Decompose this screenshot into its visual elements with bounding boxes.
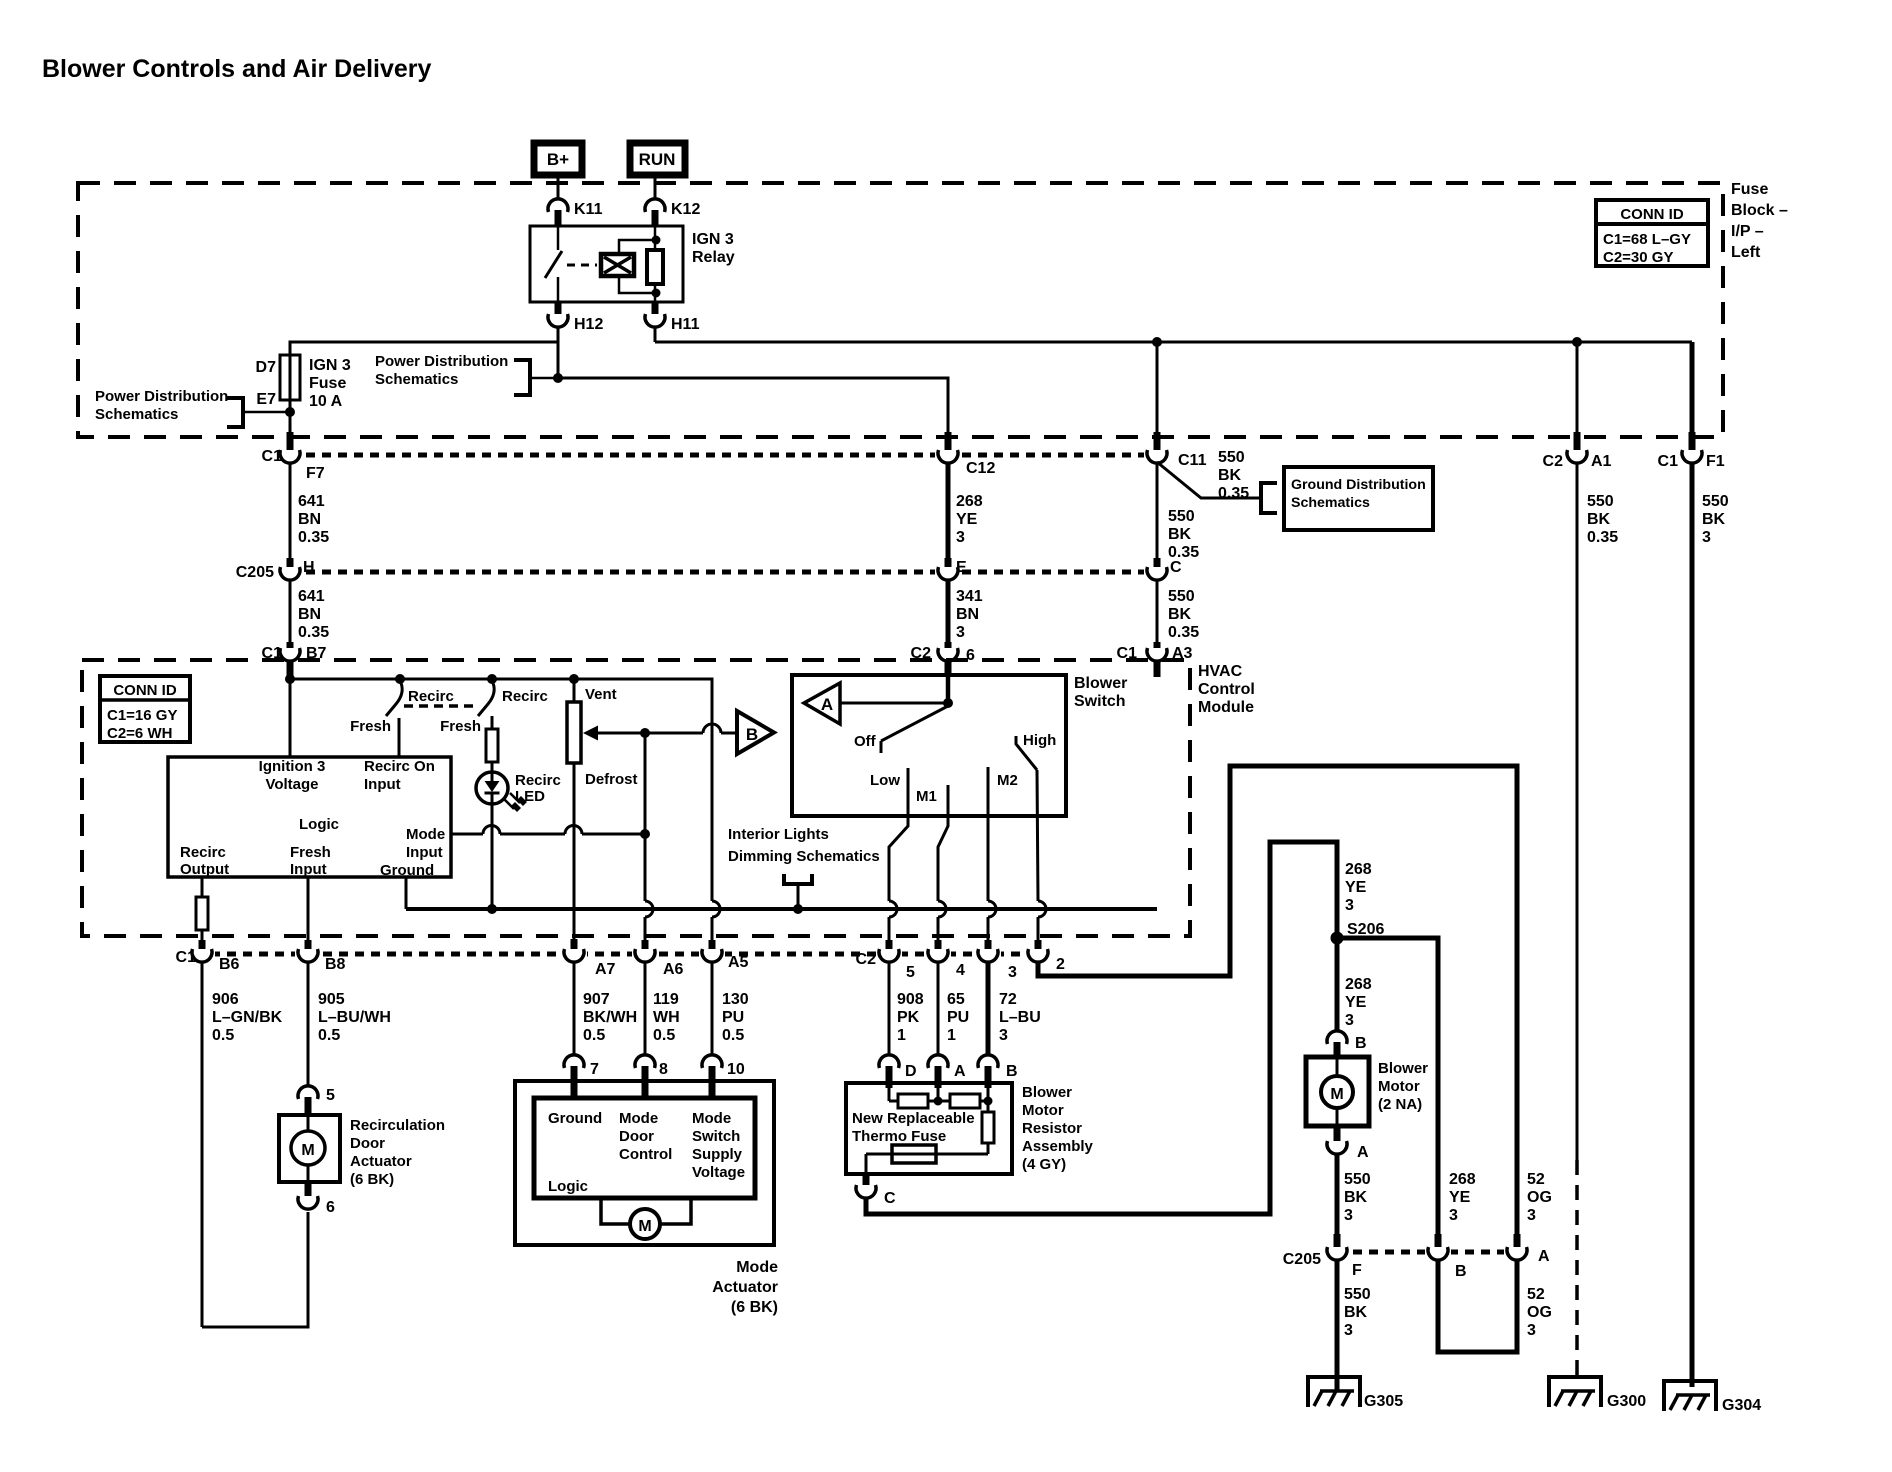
svg-text:C12: C12 (966, 460, 995, 477)
svg-text:Ground: Ground (380, 862, 434, 879)
connector B8 (295, 940, 346, 973)
wire 72 L-BU 3 (988, 962, 1041, 1055)
resistor element 2 (950, 1094, 980, 1108)
svg-text:4: 4 (956, 962, 965, 979)
svg-text:Voltage: Voltage (265, 776, 318, 793)
connector B (blower motor) (1327, 1031, 1367, 1058)
svg-text:Motor: Motor (1022, 1102, 1064, 1119)
connector 3 (975, 940, 1017, 981)
svg-text:0.35: 0.35 (298, 529, 329, 546)
wire internal feed to A5 (290, 679, 712, 901)
svg-text:Mode: Mode (692, 1110, 731, 1127)
svg-text:H: H (303, 559, 315, 576)
svg-text:M: M (638, 1218, 651, 1235)
svg-text:L–BU: L–BU (999, 1009, 1041, 1026)
svg-text:CONN ID: CONN ID (1620, 206, 1684, 223)
svg-text:Mode: Mode (736, 1259, 778, 1276)
svg-text:Relay: Relay (692, 249, 735, 266)
off-page triangle B (737, 711, 774, 754)
wire B into assembly (980, 1088, 988, 1112)
svg-text:G300: G300 (1607, 1393, 1646, 1410)
wire down to A1 (1576, 342, 1579, 432)
svg-text:Block –: Block – (1731, 202, 1788, 219)
svg-text:10 A: 10 A (309, 393, 343, 410)
connector C (resistor assembly out) (856, 1176, 896, 1207)
mode actuator logic box (534, 1098, 755, 1198)
hops over ground bus (645, 901, 653, 917)
svg-text:L–GN/BK: L–GN/BK (212, 1009, 283, 1026)
wire 130 PU 0.5 (712, 962, 749, 1055)
svg-text:Recirc: Recirc (515, 772, 561, 789)
wire 268 YE 3 C12-E (948, 463, 983, 558)
svg-text:72: 72 (999, 991, 1017, 1008)
interior lights dimming reference (728, 826, 880, 909)
connector H12 (548, 302, 603, 333)
svg-text:BK: BK (1702, 511, 1726, 528)
M2 contact (988, 767, 1018, 901)
svg-text:A: A (821, 695, 833, 714)
svg-text:Control: Control (619, 1146, 672, 1163)
svg-text:Input: Input (364, 776, 401, 793)
svg-text:L–BU/WH: L–BU/WH (318, 1009, 391, 1026)
svg-text:B: B (1455, 1263, 1467, 1280)
svg-text:C2=30 GY: C2=30 GY (1603, 249, 1673, 266)
svg-text:Dimming Schematics: Dimming Schematics (728, 848, 880, 865)
node recirc switch 2 (488, 675, 497, 684)
svg-text:CONN ID: CONN ID (113, 682, 177, 699)
connector 8 (mode actuator) (635, 1055, 668, 1099)
svg-text:D7: D7 (256, 359, 277, 376)
mode feedback arrow line (583, 724, 737, 741)
svg-text:New Replaceable: New Replaceable (852, 1110, 975, 1127)
svg-text:3: 3 (1527, 1322, 1536, 1339)
svg-text:0.5: 0.5 (653, 1027, 675, 1044)
wire 550 BK 3 to C205 F (1337, 1154, 1371, 1234)
node LED-bus (488, 905, 497, 914)
wire 641 BN 0.35 F7-H (290, 463, 329, 558)
svg-text:550: 550 (1168, 588, 1195, 605)
svg-text:0.5: 0.5 (583, 1027, 605, 1044)
svg-text:Fuse: Fuse (1731, 181, 1768, 198)
svg-text:Defrost: Defrost (585, 771, 638, 788)
svg-text:6: 6 (326, 1199, 335, 1216)
svg-text:Actuator: Actuator (350, 1153, 412, 1170)
svg-text:Fresh: Fresh (350, 718, 391, 735)
svg-text:Blower: Blower (1074, 675, 1127, 692)
connector C12 (935, 432, 995, 477)
fresh input wire (307, 877, 310, 940)
svg-text:3: 3 (1345, 1012, 1354, 1029)
wire RUN to K12 (654, 177, 657, 199)
resistor element 1 (889, 1088, 950, 1108)
connector C205-C (1144, 558, 1182, 581)
svg-text:550: 550 (1587, 493, 1614, 510)
svg-text:908: 908 (897, 991, 924, 1008)
node recirc switch 1 (396, 675, 405, 684)
connector C1-F1 (1658, 432, 1725, 470)
connector A (blower motor) (1327, 1126, 1369, 1161)
svg-text:BK: BK (1587, 511, 1611, 528)
svg-text:Blower: Blower (1378, 1060, 1428, 1077)
svg-text:Switch: Switch (692, 1128, 740, 1145)
HVAC control module dashed box (82, 660, 1255, 936)
relay resistor (647, 226, 663, 302)
svg-text:3: 3 (956, 529, 965, 546)
connector A5 (699, 940, 749, 971)
svg-text:0.5: 0.5 (318, 1027, 340, 1044)
svg-text:0.5: 0.5 (722, 1027, 744, 1044)
connector row C205 (bottom, dotted) (1337, 1250, 1517, 1255)
svg-text:Ground Distribution: Ground Distribution (1291, 477, 1426, 493)
node resistor A tap (934, 1097, 942, 1105)
node dimming-bus (794, 905, 803, 914)
svg-text:Blower: Blower (1022, 1084, 1072, 1101)
svg-text:(6 BK): (6 BK) (350, 1171, 394, 1188)
svg-text:5: 5 (326, 1087, 335, 1104)
svg-text:(6 BK): (6 BK) (731, 1299, 778, 1316)
wire to C (865, 1154, 868, 1176)
svg-text:B+: B+ (547, 150, 569, 169)
svg-text:IGN 3: IGN 3 (309, 357, 351, 374)
svg-text:3: 3 (999, 1027, 1008, 1044)
node vent resistor tap (570, 675, 579, 684)
svg-text:C1=16 GY: C1=16 GY (107, 707, 177, 724)
svg-text:B6: B6 (219, 956, 240, 973)
connector row C205 (dotted) (290, 570, 1157, 575)
svg-text:C1=68 L–GY: C1=68 L–GY (1603, 231, 1691, 248)
wire 550 BK 0.35 C-A3 (1157, 580, 1199, 642)
connector C205-E (935, 558, 967, 581)
svg-text:907: 907 (583, 991, 610, 1008)
resistor (recirc LED) (486, 729, 498, 762)
resistor element 3 (vertical) (866, 1112, 994, 1154)
svg-text:268: 268 (1449, 1171, 1476, 1188)
svg-text:K11: K11 (574, 201, 603, 218)
wire 550 BK 0.35 C11-C (1157, 463, 1199, 561)
svg-text:OG: OG (1527, 1189, 1552, 1206)
svg-text:I/P –: I/P – (1731, 223, 1764, 240)
svg-text:Recirc: Recirc (408, 688, 454, 705)
connector D (resistor assembly) (879, 1055, 917, 1088)
wire 268 YE C loop to S206 (866, 842, 1337, 1214)
svg-text:G304: G304 (1722, 1397, 1761, 1414)
blower switch box (792, 675, 1127, 816)
wire 641 BN 0.35 H-B7 (290, 580, 329, 642)
svg-text:Logic: Logic (299, 816, 339, 833)
relay coil (601, 236, 660, 297)
node S206 (1331, 921, 1384, 944)
svg-text:OG: OG (1527, 1304, 1552, 1321)
wire B+ to K11 (557, 177, 560, 199)
svg-text:Power Distribution: Power Distribution (95, 388, 228, 405)
fuse IGN 3 10A (256, 352, 351, 410)
svg-text:C205: C205 (236, 564, 274, 581)
svg-text:Schematics: Schematics (375, 371, 458, 388)
CONN ID box (HVAC) (100, 676, 190, 742)
recirc LED (476, 762, 561, 909)
ground G300 (1549, 1377, 1646, 1410)
svg-text:3: 3 (1008, 964, 1017, 981)
svg-text:(4 GY): (4 GY) (1022, 1156, 1066, 1173)
wire 52 OG 3 loop (pin 2 to C205 A) (1038, 766, 1552, 1234)
switch linkage dashed (404, 704, 474, 708)
svg-text:7: 7 (590, 1061, 599, 1078)
svg-text:G305: G305 (1364, 1393, 1403, 1410)
svg-text:E7: E7 (256, 391, 276, 408)
wire H12 branch to fuse (290, 342, 558, 356)
B+ terminal (534, 143, 582, 175)
svg-text:S206: S206 (1347, 921, 1384, 938)
svg-text:RUN: RUN (639, 150, 676, 169)
svg-text:PK: PK (897, 1009, 920, 1026)
node resistor B tap (984, 1097, 992, 1105)
power distribution schematics reference (center) (375, 353, 556, 395)
low contact (870, 768, 908, 901)
mode actuator motor (601, 1198, 691, 1239)
svg-text:(2 NA): (2 NA) (1378, 1096, 1422, 1113)
svg-text:Door: Door (619, 1128, 654, 1145)
svg-text:Thermo Fuse: Thermo Fuse (852, 1128, 946, 1145)
M1 contact (916, 785, 948, 901)
node H12/C12 junction (554, 374, 563, 383)
wires bus to pin row (644, 917, 647, 940)
svg-text:YE: YE (1345, 879, 1367, 896)
svg-text:341: 341 (956, 588, 983, 605)
svg-text:A6: A6 (663, 961, 684, 978)
connector K12 (645, 199, 700, 227)
svg-text:3: 3 (1344, 1322, 1353, 1339)
node fuse/bracket junction (286, 408, 295, 417)
svg-text:M1: M1 (916, 788, 937, 805)
svg-text:550: 550 (1344, 1286, 1371, 1303)
connector A6 (632, 940, 684, 978)
svg-text:C2: C2 (1543, 453, 1564, 470)
svg-text:K12: K12 (671, 201, 700, 218)
RUN terminal (630, 143, 685, 175)
svg-text:550: 550 (1168, 508, 1195, 525)
svg-text:Input: Input (290, 861, 327, 878)
svg-text:B: B (746, 725, 758, 744)
svg-text:Output: Output (180, 861, 229, 878)
svg-text:BK: BK (1168, 606, 1192, 623)
connector A (resistor assembly) (928, 1055, 966, 1088)
svg-text:Ground: Ground (548, 1110, 602, 1127)
svg-text:HVAC: HVAC (1198, 663, 1243, 680)
svg-text:Actuator: Actuator (712, 1279, 778, 1296)
svg-text:905: 905 (318, 991, 345, 1008)
svg-text:WH: WH (653, 1009, 680, 1026)
svg-text:Module: Module (1198, 699, 1254, 716)
svg-text:550: 550 (1344, 1171, 1371, 1188)
internal ground bus (406, 907, 1157, 911)
wire 268 YE 3 label (right branch) (1449, 1171, 1476, 1224)
svg-text:Recirculation: Recirculation (350, 1117, 445, 1134)
svg-text:8: 8 (659, 1061, 668, 1078)
svg-text:IGN 3: IGN 3 (692, 231, 734, 248)
svg-text:BK/WH: BK/WH (583, 1009, 637, 1026)
wire 119 WH 0.5 (645, 962, 680, 1055)
connector 2 (1025, 940, 1065, 973)
svg-text:A: A (954, 1063, 966, 1080)
svg-text:1: 1 (947, 1027, 956, 1044)
ground distribution schematics reference (1157, 462, 1433, 530)
blower switch blade (854, 706, 948, 753)
logic box (168, 757, 451, 879)
wire loop to recirc actuator 6 (202, 1212, 308, 1327)
svg-text:550: 550 (1702, 493, 1729, 510)
relay switch (545, 226, 562, 302)
svg-text:Input: Input (406, 844, 443, 861)
mode input line with hops (451, 826, 645, 835)
svg-text:Recirc: Recirc (180, 844, 226, 861)
svg-text:Logic: Logic (548, 1178, 588, 1195)
svg-text:PU: PU (722, 1009, 744, 1026)
svg-text:Interior Lights: Interior Lights (728, 826, 829, 843)
recirc-fresh switch 1 (350, 683, 454, 757)
connector C2-6 (911, 642, 975, 677)
svg-text:3: 3 (1702, 529, 1711, 546)
vent-defrost mode resistor (567, 679, 638, 939)
connector C2-5 (856, 940, 915, 981)
svg-text:BN: BN (956, 606, 979, 623)
svg-text:Fresh: Fresh (290, 844, 331, 861)
svg-text:H12: H12 (574, 316, 603, 333)
svg-text:A7: A7 (595, 961, 616, 978)
svg-text:BK: BK (1218, 467, 1242, 484)
power distribution schematics reference (left) (95, 388, 288, 427)
wire 341 BN 3 E-6 (948, 580, 983, 642)
mode actuator outer box (515, 1081, 778, 1316)
svg-text:B: B (1006, 1063, 1018, 1080)
connector C1-B6 (176, 940, 240, 973)
connector C1-F7 (262, 432, 325, 482)
connector row C1 fuse block (dotted) (290, 453, 1157, 458)
svg-text:65: 65 (947, 991, 965, 1008)
svg-text:Power Distribution: Power Distribution (375, 353, 508, 370)
svg-text:0.5: 0.5 (212, 1027, 234, 1044)
svg-text:Motor: Motor (1378, 1078, 1420, 1095)
node mode feedback / A6 (641, 729, 650, 738)
svg-text:Recirc: Recirc (502, 688, 548, 705)
connector C1-A3 (1117, 642, 1193, 677)
svg-text:Switch: Switch (1074, 693, 1126, 710)
connector H11 (645, 302, 700, 333)
svg-text:Voltage: Voltage (692, 1164, 745, 1181)
wire down to F1 (1690, 342, 1695, 432)
relay armature dashed link (567, 264, 597, 267)
recirc-fresh switch 2 (440, 683, 548, 735)
wire B7 feed bus (289, 677, 292, 757)
connector C1-B7 (262, 642, 327, 677)
connector K11 (548, 199, 603, 227)
feed from C2-6 (946, 677, 951, 703)
svg-text:3: 3 (1345, 897, 1354, 914)
wire 268 YE 3 label (above S206) (1345, 861, 1372, 914)
ground G304 (1664, 1381, 1761, 1414)
svg-text:268: 268 (1345, 861, 1372, 878)
node blower switch common (944, 699, 953, 708)
svg-text:3: 3 (956, 624, 965, 641)
svg-text:C: C (884, 1190, 896, 1207)
svg-text:Fuse: Fuse (309, 375, 346, 392)
connector A7 (561, 939, 616, 978)
svg-text:BK: BK (1168, 526, 1192, 543)
svg-text:C1: C1 (176, 949, 197, 966)
connector C205-H (236, 558, 315, 581)
svg-text:Schematics: Schematics (95, 406, 178, 423)
svg-text:C2: C2 (856, 951, 877, 968)
connector C11 (1144, 432, 1207, 469)
ground G305 (1308, 1377, 1403, 1410)
svg-text:906: 906 (212, 991, 239, 1008)
svg-text:0.35: 0.35 (1587, 529, 1618, 546)
wire 550 BK 0.35 label (C11 top) (1218, 449, 1249, 502)
svg-text:A: A (1538, 1248, 1550, 1265)
svg-text:5: 5 (906, 964, 915, 981)
svg-text:641: 641 (298, 493, 325, 510)
svg-text:C11: C11 (1178, 452, 1207, 469)
node C11 tap (1153, 338, 1162, 347)
svg-text:B: B (1355, 1035, 1367, 1052)
svg-text:2: 2 (1056, 956, 1065, 973)
svg-text:A5: A5 (728, 954, 749, 971)
svg-text:Mode: Mode (406, 826, 445, 843)
svg-text:1: 1 (897, 1027, 906, 1044)
fuse block I/P dashed border (78, 181, 1788, 437)
svg-text:C2=6 WH: C2=6 WH (107, 725, 172, 742)
svg-text:Assembly: Assembly (1022, 1138, 1094, 1155)
svg-text:0.35: 0.35 (1168, 624, 1199, 641)
svg-text:LED: LED (515, 788, 545, 805)
svg-text:Control: Control (1198, 681, 1255, 698)
connector C205-A (1504, 1234, 1550, 1265)
ground pin wire (405, 877, 408, 909)
svg-text:F1: F1 (1706, 453, 1725, 470)
svg-text:Ignition 3: Ignition 3 (259, 758, 326, 775)
svg-text:130: 130 (722, 991, 749, 1008)
svg-text:Blower Controls and Air Delive: Blower Controls and Air Delivery (42, 55, 432, 83)
svg-text:52: 52 (1527, 1171, 1545, 1188)
svg-text:641: 641 (298, 588, 325, 605)
svg-text:Resistor: Resistor (1022, 1120, 1082, 1137)
svg-text:YE: YE (956, 511, 978, 528)
wire 905 L-BU/WH 0.5 (308, 962, 391, 1086)
connector C205-F (1283, 1234, 1362, 1279)
new replaceable thermo fuse (852, 1110, 975, 1163)
wire 906 L-GN/BK 0.5 (202, 962, 283, 1327)
svg-text:3: 3 (1449, 1207, 1458, 1224)
wire triangle A to node (840, 702, 948, 705)
svg-text:H11: H11 (671, 316, 700, 333)
node A1 tap (1573, 338, 1582, 347)
svg-text:3: 3 (1344, 1207, 1353, 1224)
svg-text:550: 550 (1218, 449, 1245, 466)
svg-text:0.35: 0.35 (298, 624, 329, 641)
connector 7 (mode actuator) (564, 1055, 599, 1099)
wire A into assembly (937, 1088, 940, 1101)
svg-text:Mode: Mode (619, 1110, 658, 1127)
svg-text:Vent: Vent (585, 686, 617, 703)
svg-text:C1: C1 (1658, 453, 1679, 470)
svg-text:268: 268 (1345, 976, 1372, 993)
off-page triangle A (804, 683, 840, 724)
relay IGN 3 box (530, 226, 735, 302)
svg-text:M: M (301, 1142, 314, 1159)
svg-text:B8: B8 (325, 956, 346, 973)
svg-text:Off: Off (854, 733, 877, 750)
svg-text:BN: BN (298, 511, 321, 528)
HVAC pin row (dotted) (195, 952, 1048, 957)
